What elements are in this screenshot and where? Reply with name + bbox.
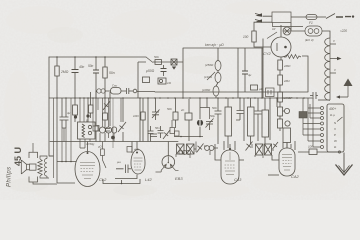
tube V2 <box>131 150 145 175</box>
speaker winding zigzag 1 <box>38 159 42 176</box>
resistor R5 inside box <box>158 78 166 84</box>
resistor R22 box <box>185 99 192 141</box>
svg-text:4μ: 4μ <box>248 73 252 77</box>
tube V3 C43 <box>221 150 239 184</box>
svg-text:2MΩF: 2MΩF <box>283 96 292 100</box>
wire lamp branch <box>283 23 305 32</box>
resistor R20 x=143 <box>141 98 145 142</box>
resistor R14 tall box <box>283 128 291 148</box>
svg-text:Philips: Philips <box>7 167 13 187</box>
svg-text:N: N <box>334 121 336 125</box>
wire chain links <box>279 70 281 107</box>
resistor R18 <box>103 113 108 120</box>
resistor R25 near V2 top <box>127 147 132 153</box>
resistor R15 <box>73 105 78 115</box>
wires speaker <box>33 143 57 184</box>
wire dropper bottom <box>318 99 330 101</box>
svg-text:B: B <box>86 119 88 123</box>
capacitor C11 lower <box>150 134 157 137</box>
resistor R1 2M left drop <box>55 57 59 98</box>
capacitor C17 upper cluster <box>148 126 154 142</box>
wire R7 top <box>254 22 263 31</box>
svg-text:50n: 50n <box>88 64 94 68</box>
svg-text:I/II: I/II <box>272 27 276 31</box>
pickup arrow 2 <box>255 20 261 22</box>
junction dots on bus A <box>56 56 106 58</box>
transformer block T1 <box>272 12 291 23</box>
svg-text:L42: L42 <box>145 177 152 182</box>
resistor R12 with trimmer circle <box>278 107 290 116</box>
resistor tall RT4 <box>262 98 269 144</box>
magic eye EB3 <box>162 156 175 169</box>
feedback network box frame <box>138 48 183 98</box>
pickup arrow 1 <box>255 14 261 16</box>
wire antenna to cap <box>340 96 348 98</box>
trimmer T3 <box>103 101 110 110</box>
fuse F1 <box>306 15 317 20</box>
capacitor C5 x=245 <box>242 71 248 74</box>
resistor R16 small <box>93 126 98 131</box>
terminal leads with circles <box>303 108 321 147</box>
trimmer circles pair mid row <box>97 89 106 93</box>
IF transformer winding W4 <box>265 144 272 155</box>
svg-text:2MΩ: 2MΩ <box>60 70 69 74</box>
trimmer T5 <box>197 144 204 153</box>
wire barretter to dropper <box>322 31 330 38</box>
svg-text:50μ: 50μ <box>210 114 215 118</box>
trimmer T6 <box>246 142 253 151</box>
wire fuse to switch <box>317 16 326 18</box>
resistor R17 <box>89 92 94 118</box>
wire drop x=218 from bus C <box>217 48 219 61</box>
svg-text:Cau: Cau <box>112 84 118 88</box>
IF transformer winding W1 <box>177 144 185 154</box>
oscillator coil box <box>78 122 96 139</box>
ground arrow earth <box>336 153 353 176</box>
resistor R19 small <box>95 126 99 132</box>
wire V1 top lead <box>87 142 89 152</box>
wire x=262 <box>261 48 263 98</box>
potentiometer P1 volume <box>197 98 210 136</box>
resistor R11 chain <box>278 92 283 102</box>
resistor R24 100 right of V4 <box>298 149 338 155</box>
capacitor block C19 <box>266 88 275 97</box>
capacitor C2 drop x=96 <box>93 57 99 98</box>
resistor CH3 oval <box>213 86 219 96</box>
svg-text:50n: 50n <box>167 107 172 111</box>
wire links tubes row <box>176 142 274 159</box>
capacitor C13 drop x=240 <box>236 98 244 120</box>
IF transformer winding W3 <box>256 144 264 155</box>
resistor R8 zigzag <box>284 55 301 59</box>
speaker winding coil 2 <box>44 159 47 177</box>
electrolytic plus dots <box>74 115 77 118</box>
capacitor C9 with arrow <box>152 98 160 120</box>
svg-text:40n: 40n <box>79 65 85 69</box>
svg-text:50n: 50n <box>109 71 115 75</box>
svg-text:2M1: 2M1 <box>283 79 290 83</box>
svg-text:C43: C43 <box>234 177 242 182</box>
wire left rail x=49 <box>48 57 50 156</box>
svg-text:CY2: CY2 <box>263 51 272 56</box>
wire rail y=92 <box>155 91 308 93</box>
rectifier tube CY2 <box>271 37 291 57</box>
V1 apex electrode dot <box>87 152 89 154</box>
svg-text:50n: 50n <box>154 55 159 59</box>
component pair upper cluster <box>170 120 175 134</box>
barretter B1 <box>305 26 322 36</box>
resistor tall RT2 <box>225 98 232 148</box>
svg-text:2MΩ: 2MΩ <box>283 64 291 68</box>
switch S2 on box top <box>146 57 153 63</box>
wire V3 leads <box>215 141 244 160</box>
capacitor C16 mid row <box>127 88 137 94</box>
dropper taps <box>330 44 337 73</box>
svg-text:(EX 4): (EX 4) <box>305 38 314 42</box>
svg-text:100: 100 <box>308 145 313 149</box>
wire CY2 left to R7 <box>254 42 271 47</box>
terminal strip TS1 <box>327 104 344 152</box>
svg-text:45 U: 45 U <box>13 147 23 166</box>
trimmer T2 diagonal <box>118 122 126 132</box>
coupling circles pair low <box>179 151 191 155</box>
wires heater comb left <box>54 92 156 157</box>
switch S1 mains <box>326 14 335 19</box>
resistor R23 tiny <box>175 131 180 136</box>
capacitor C15 left of V2 <box>116 165 131 174</box>
svg-text:(110Ω: (110Ω <box>204 75 213 79</box>
svg-text:μ50Ω: μ50Ω <box>145 69 155 73</box>
svg-text:F1: F1 <box>309 21 313 25</box>
resistor R9 chain <box>278 60 283 70</box>
mains cord <box>336 16 351 18</box>
svg-text:2n: 2n <box>180 108 185 112</box>
svg-text:Ω·μ: Ω·μ <box>330 113 335 117</box>
trimmer T7 <box>273 142 279 149</box>
resistor CH2 oval <box>215 73 221 83</box>
svg-text:P: P <box>334 133 336 137</box>
junction dots on bus B <box>56 97 305 99</box>
svg-text:V: V <box>334 127 336 131</box>
switch S1b <box>267 32 277 39</box>
wire R8 to x308 <box>302 56 308 92</box>
resistor R10 chain <box>278 75 283 85</box>
heater link U shape <box>103 179 140 184</box>
capacitor C7 pair plates <box>60 117 69 120</box>
capacitor C3 crossed + triangle <box>171 59 177 65</box>
resistor tall RT3 <box>248 98 255 144</box>
resistor R3 small box on box top <box>155 60 162 65</box>
svg-text:≈220: ≈220 <box>340 29 347 33</box>
resistor R21 50n <box>173 98 178 128</box>
wires lower-left drops <box>57 92 148 183</box>
coupling circles pair <box>205 146 214 151</box>
pilot lamp LP1 <box>283 27 291 35</box>
wire V2 leads <box>115 142 137 179</box>
wire V4 leads <box>268 141 295 175</box>
svg-text:μω: μω <box>116 160 122 164</box>
capacitor C8 <box>105 129 111 132</box>
V2 top electrode dot <box>136 152 138 154</box>
antenna symbol <box>347 84 349 97</box>
capacitor C4 inside box <box>161 65 167 76</box>
wire CY2 top <box>280 25 282 37</box>
wire drops right cluster <box>207 98 277 144</box>
wire CY2 bottom <box>280 57 282 60</box>
dark component blob <box>299 112 307 119</box>
capacitor C6 antenna coupling <box>310 92 318 99</box>
speaker cone <box>21 160 29 174</box>
svg-text:400+: 400+ <box>329 107 336 111</box>
capacitor Cau rounded block <box>105 88 126 95</box>
svg-text:10Ω: 10Ω <box>133 114 139 118</box>
wire CH chain links <box>216 48 245 98</box>
svg-text:EB3: EB3 <box>175 176 183 181</box>
capacitor C18 upper cluster <box>158 126 164 138</box>
wire lower link y=136 <box>174 136 203 138</box>
wires heater comb extension <box>54 128 77 178</box>
dropper coil L1 <box>325 38 330 100</box>
svg-text:4μ: 4μ <box>67 111 71 115</box>
capacitor C14 drop x=258 <box>255 98 262 120</box>
tube V1 CL2 output <box>75 152 100 187</box>
wire to fuse <box>291 16 306 18</box>
svg-text:(250Ω: (250Ω <box>205 63 214 67</box>
capacitor C12 drop x=218 <box>215 98 222 120</box>
svg-text:100: 100 <box>243 35 249 39</box>
svg-text:W: W <box>334 139 337 143</box>
wires oscillator box drops <box>62 98 121 148</box>
wire main bus B y=98 <box>49 97 312 99</box>
wire bus C y=48 <box>183 47 263 49</box>
svg-text:(100Ω: (100Ω <box>202 88 211 92</box>
tube V4 CA2 <box>279 148 295 176</box>
resistor R7 100 <box>252 31 256 42</box>
wire pickup leads <box>263 16 273 22</box>
wire bus A top-left y=57 <box>49 56 146 58</box>
switch S3 diagonal <box>207 72 215 80</box>
IF transformer winding W2 <box>187 144 195 154</box>
capacitor C10 with arrow <box>206 119 214 131</box>
resistor R2 drop x=105 <box>103 57 107 98</box>
wire V1 left lead <box>49 156 75 183</box>
resistor CH1 oval <box>215 61 221 71</box>
capacitor C1 drop x=75 <box>72 57 79 98</box>
svg-text:CA2: CA2 <box>291 174 300 179</box>
resistor R26 small left of V2 <box>101 142 107 169</box>
speaker magnet box <box>30 164 37 170</box>
svg-text:4n5: 4n5 <box>134 148 139 152</box>
trimmer T4 lower <box>163 130 170 139</box>
svg-text:50n: 50n <box>155 126 160 130</box>
wires to terminals verticals <box>303 98 313 147</box>
svg-text:ken a(n · μΩ: ken a(n · μΩ <box>205 43 224 47</box>
output transformer bottom flange <box>29 177 38 183</box>
output transformer top flange <box>29 152 38 158</box>
resistor R4 inside box <box>143 77 150 83</box>
resistor R6 box x=254 <box>251 85 258 90</box>
tuning gang section <box>100 127 117 133</box>
resistor R13 with circle <box>278 116 291 131</box>
wire rail y=141.5 <box>50 141 178 143</box>
V3 apex electrode dot <box>229 148 231 150</box>
svg-text:50n: 50n <box>212 106 217 110</box>
wire x=263 power rail <box>262 39 264 99</box>
junction blob trimmer <box>111 136 115 140</box>
